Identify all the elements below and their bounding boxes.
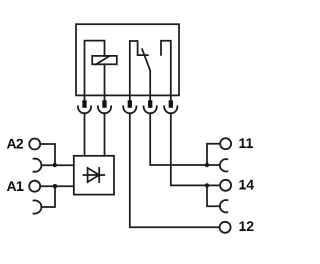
node A junction dot bbox=[53, 163, 57, 167]
wire node 14 to terminal 14 bbox=[207, 184, 220, 186]
NO stationary contact branch (pin5) bbox=[161, 41, 171, 96]
plug pin 1 blade bbox=[82, 100, 86, 108]
plug pin 5 wire bbox=[170, 95, 172, 100]
wire cup A1 to node B bbox=[42, 186, 56, 207]
wire A2 to node A bbox=[41, 144, 55, 165]
plug pin 3 wire bbox=[129, 95, 131, 100]
node 14 junction dot bbox=[205, 183, 209, 187]
label 14 foot serif of 1 bbox=[240, 188, 245, 190]
label 11 foot serifs bbox=[240, 146, 245, 148]
test socket cup under A2 bbox=[34, 159, 42, 172]
test socket cup under A1 bbox=[34, 200, 42, 213]
terminal circle 12 bbox=[220, 222, 231, 233]
plug pin 1 wire bbox=[84, 95, 86, 100]
relay coil K bbox=[92, 56, 117, 65]
wire A1 to diode box bbox=[41, 185, 74, 187]
terminal circle A1 bbox=[29, 181, 40, 192]
test socket cup 11 bbox=[220, 159, 228, 171]
svg-text:14: 14 bbox=[239, 176, 255, 192]
plug pin 4 socket cup bbox=[144, 106, 157, 113]
plug pin 4 blade bbox=[148, 100, 152, 108]
label 12 foot serif of 1 bbox=[240, 229, 245, 231]
test socket cup 14 bbox=[220, 200, 228, 212]
svg-text:A2: A2 bbox=[7, 135, 24, 151]
plug pin 3 blade bbox=[128, 100, 132, 108]
label A1 foot serif of 1 bbox=[18, 189, 23, 191]
plug pin 3 socket cup bbox=[123, 106, 136, 113]
wire pin1 to diode box bbox=[84, 113, 86, 156]
wire node 14 to socket cup 14 bbox=[207, 185, 220, 206]
diode V1 bbox=[84, 168, 105, 182]
plug pin 1 socket cup bbox=[78, 106, 91, 113]
NC stationary contact branch (pin3) bbox=[130, 41, 148, 95]
wire pin2 to diode box bbox=[104, 113, 106, 156]
svg-text:A1: A1 bbox=[7, 178, 24, 194]
wire node 11 to socket cup 11 bbox=[207, 164, 220, 166]
relay module outline box bbox=[76, 24, 179, 95]
svg-text:11: 11 bbox=[239, 135, 254, 151]
terminal circle 11 bbox=[220, 138, 231, 149]
plug pin 4 wire bbox=[149, 95, 151, 100]
wire cup A2 to diode box bbox=[42, 164, 74, 166]
plug pin 5 blade bbox=[169, 100, 173, 108]
wire coil feed from pin1 up and over bbox=[85, 41, 105, 96]
node B junction dot bbox=[53, 184, 57, 188]
wire coil output to pin2 bbox=[104, 64, 106, 95]
plug pin 2 wire bbox=[104, 95, 106, 100]
wire pin4 to node 11 bbox=[150, 113, 207, 165]
wire pin5 to node 14 bbox=[171, 113, 207, 185]
plug pin 2 blade bbox=[102, 100, 106, 108]
terminal circle A2 bbox=[29, 139, 40, 150]
moving contact arm to pin4 bbox=[142, 49, 150, 95]
plug pin 5 socket cup bbox=[164, 106, 177, 113]
wire pin3 to terminal 12 bbox=[130, 113, 220, 227]
terminal circle 14 bbox=[220, 180, 231, 191]
diode box bbox=[74, 156, 114, 195]
svg-text:12: 12 bbox=[239, 218, 255, 234]
wire node 11 to terminal 11 bbox=[207, 144, 220, 165]
node 11 junction dot bbox=[205, 163, 209, 167]
plug pin 2 socket cup bbox=[98, 106, 111, 113]
